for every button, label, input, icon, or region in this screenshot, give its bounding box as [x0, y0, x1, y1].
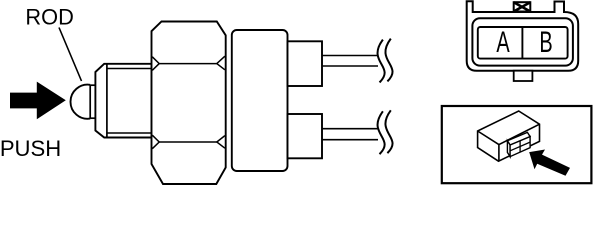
3D connector protrusion top face: [507, 132, 530, 145]
rod stub top: [90, 84, 95, 86]
rod stub bottom: [90, 117, 95, 119]
inset arrow (black): [529, 150, 570, 176]
wire break lower: [378, 111, 385, 154]
3D connector pin grid (2x2): [510, 137, 530, 157]
connector bottom tab: [514, 71, 533, 81]
chamfer mark upper-right: [217, 56, 225, 70]
hex nut body: [152, 22, 226, 185]
pin housing box: [478, 27, 568, 59]
bushing shoulder line: [106, 64, 108, 138]
pin label B: [539, 26, 552, 59]
terminal block upper: [288, 41, 323, 86]
wire upper (two lines): [322, 55, 378, 57]
svg-text:PUSH: PUSH: [0, 136, 61, 161]
svg-text:B: B: [539, 26, 552, 59]
wire break upper: [378, 40, 385, 83]
terminal block lower: [288, 114, 323, 158]
thread relief line bottom: [107, 132, 152, 134]
threaded bushing: [95, 64, 151, 138]
3D connector protrusion left face: [507, 141, 510, 157]
chamfer mark upper-left: [152, 57, 159, 71]
nut facet line upper: [159, 63, 217, 65]
chamfer mark lower-left: [152, 135, 159, 149]
svg-text:ROD: ROD: [25, 5, 73, 30]
connector shell outline with mounting tabs: [467, 1, 579, 71]
rod plunger (bulb tip): [70, 85, 90, 119]
inset box frame: [442, 106, 592, 183]
connector keying symbol (bowtie): [514, 2, 531, 11]
chamfer mark lower-right: [217, 136, 225, 149]
connector inner wall: [472, 18, 573, 65]
pin label A: [496, 26, 509, 59]
PUSH arrow (solid black): [10, 82, 66, 120]
svg-text:A: A: [496, 26, 509, 59]
leader line from ROD to rod tip: [59, 28, 82, 82]
wire lower (two lines): [322, 128, 378, 130]
thread relief line top: [107, 68, 152, 70]
3D switch body silhouette: [478, 111, 540, 161]
rod end face: [89, 85, 91, 119]
3D top face edges: [478, 124, 540, 161]
nut facet line lower: [159, 141, 217, 143]
switch main body: [232, 30, 288, 171]
pin divider: [521, 27, 523, 59]
